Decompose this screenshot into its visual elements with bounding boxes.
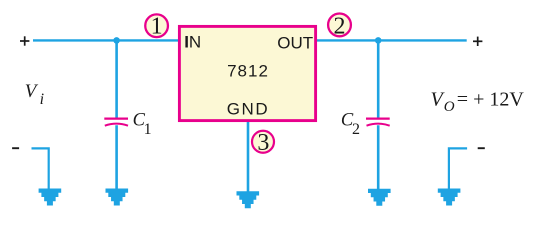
svg-text:OUT: OUT: [277, 34, 313, 53]
wire output negative hook: [449, 148, 467, 189]
label C2: [341, 111, 360, 139]
wire GND pin 3: [247, 121, 250, 192]
capacitor C2 curved plate: [367, 124, 390, 126]
svg-text:IN: IN: [184, 33, 201, 52]
wire C2 top: [377, 40, 380, 118]
svg-text:2: 2: [352, 121, 360, 138]
wire C1 bottom: [115, 125, 118, 189]
svg-text:7812: 7812: [227, 62, 269, 81]
pin circle 2: [328, 13, 351, 39]
ground (input): [39, 189, 62, 206]
svg-text:1: 1: [151, 13, 163, 39]
plus input terminal: [20, 36, 29, 45]
capacitor C1 curved plate: [105, 124, 128, 126]
ground (C1): [106, 189, 129, 206]
svg-text:i: i: [40, 91, 44, 108]
wire C1 top: [115, 40, 118, 118]
svg-text:2: 2: [334, 13, 346, 39]
pin circle 3: [252, 130, 274, 156]
ground (C2): [368, 189, 391, 206]
ground (regulator GND pin): [237, 191, 260, 208]
wire input negative hook: [32, 148, 49, 189]
svg-text:O: O: [444, 99, 455, 115]
junction node input: [113, 37, 120, 44]
wire output lead: [316, 39, 467, 41]
minus input terminal: [12, 147, 19, 149]
junction node output: [375, 37, 382, 44]
svg-text:3: 3: [257, 130, 269, 156]
svg-text:1: 1: [144, 121, 152, 138]
svg-text:GND: GND: [227, 99, 270, 118]
pin circle 1: [145, 13, 168, 39]
capacitor C2 top plate: [366, 117, 390, 119]
regulator U1 7812 body: [179, 26, 315, 120]
minus output terminal: [478, 147, 485, 149]
plus output terminal: [473, 37, 482, 46]
ground (output): [438, 189, 461, 206]
label C1: [133, 111, 152, 139]
label Vi: [25, 81, 44, 108]
label Vo = +12V: [431, 89, 525, 115]
wire C2 bottom: [377, 125, 380, 190]
capacitor C1 top plate: [104, 117, 128, 119]
svg-text:= + 12V: = + 12V: [457, 89, 525, 111]
wire input lead: [33, 39, 179, 41]
